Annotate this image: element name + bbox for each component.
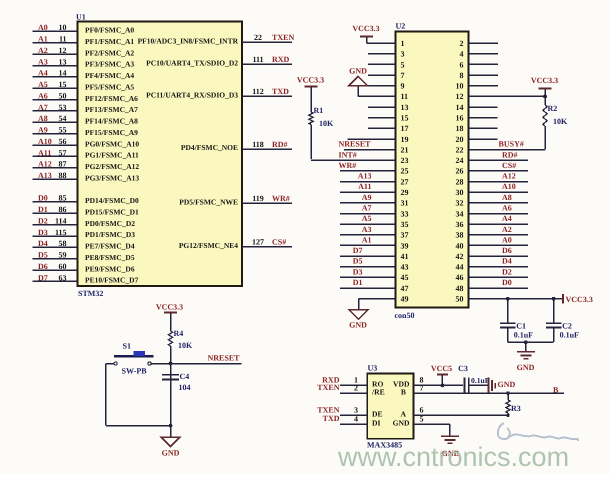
svg-text:20: 20 <box>456 135 464 144</box>
svg-text:PD1/FSMC_D3: PD1/FSMC_D3 <box>85 230 135 239</box>
svg-text:A2: A2 <box>38 46 48 55</box>
svg-text:NRESET: NRESET <box>339 140 372 149</box>
svg-text:D4: D4 <box>502 257 512 266</box>
svg-text:CS#: CS# <box>502 161 516 170</box>
svg-text:D2: D2 <box>38 216 48 225</box>
svg-text:GND: GND <box>517 363 535 372</box>
svg-text:R1: R1 <box>314 106 324 115</box>
svg-text:B: B <box>553 386 559 395</box>
svg-text:GND: GND <box>393 418 410 427</box>
svg-text:57: 57 <box>59 148 67 157</box>
svg-text:A5: A5 <box>362 214 372 223</box>
svg-text:PE8/FSMC_D5: PE8/FSMC_D5 <box>85 253 135 262</box>
svg-text:VCC3.3: VCC3.3 <box>566 295 593 304</box>
svg-text:A3: A3 <box>362 225 372 234</box>
svg-text:A1: A1 <box>38 35 48 44</box>
svg-text:D0: D0 <box>502 278 512 287</box>
svg-text:48: 48 <box>456 284 464 293</box>
svg-text:U1: U1 <box>76 13 86 22</box>
svg-text:31: 31 <box>401 199 409 208</box>
svg-text:B: B <box>401 387 406 396</box>
svg-text:10K: 10K <box>553 117 568 126</box>
svg-text:A13: A13 <box>358 172 372 181</box>
svg-text:PF0/FSMC_A0: PF0/FSMC_A0 <box>85 26 134 35</box>
svg-text:A7: A7 <box>362 204 372 213</box>
svg-text:127: 127 <box>252 238 264 247</box>
svg-text:12: 12 <box>59 46 67 55</box>
svg-text:PF5/FSMC_A5: PF5/FSMC_A5 <box>85 82 134 91</box>
svg-text:SW-PB: SW-PB <box>122 367 148 376</box>
svg-text:24: 24 <box>456 156 464 165</box>
svg-text:58: 58 <box>59 239 67 248</box>
svg-text:2: 2 <box>460 39 464 48</box>
svg-text:11: 11 <box>59 35 67 44</box>
svg-text:30: 30 <box>456 188 464 197</box>
svg-text:A10: A10 <box>38 137 52 146</box>
svg-text:D3: D3 <box>38 228 48 237</box>
svg-text:PF2/FSMC_A2: PF2/FSMC_A2 <box>85 48 134 57</box>
svg-text:PD14/FSMC_D0: PD14/FSMC_D0 <box>85 196 139 205</box>
svg-text:VCC3.3: VCC3.3 <box>297 76 324 85</box>
svg-text:13: 13 <box>59 57 67 66</box>
svg-text:39: 39 <box>401 241 409 250</box>
svg-text:C3: C3 <box>458 364 468 373</box>
svg-text:DI: DI <box>372 418 380 427</box>
svg-text:9: 9 <box>401 82 405 91</box>
svg-text:CS#: CS# <box>272 238 286 247</box>
svg-text:PG2/FSMC_A12: PG2/FSMC_A12 <box>85 162 139 171</box>
svg-text:10: 10 <box>456 82 464 91</box>
svg-text:18: 18 <box>456 124 464 133</box>
svg-text:D5: D5 <box>38 251 48 260</box>
svg-text:TXEN: TXEN <box>272 33 294 42</box>
svg-text:D1: D1 <box>353 278 363 287</box>
svg-text:55: 55 <box>59 126 67 135</box>
svg-text:6: 6 <box>460 60 464 69</box>
svg-text:15: 15 <box>401 114 409 123</box>
svg-text:A: A <box>401 410 407 419</box>
svg-text:D1: D1 <box>38 205 48 214</box>
svg-text:PF13/FSMC_A7: PF13/FSMC_A7 <box>85 105 138 114</box>
svg-text:4: 4 <box>354 414 358 423</box>
svg-text:A7: A7 <box>38 103 48 112</box>
svg-text:21: 21 <box>401 145 409 154</box>
svg-text:GND: GND <box>349 67 367 76</box>
svg-text:www.cntronics.com: www.cntronics.com <box>337 442 569 472</box>
svg-text:53: 53 <box>59 103 67 112</box>
svg-text:PF3/FSMC_A3: PF3/FSMC_A3 <box>85 60 134 69</box>
svg-text:10K: 10K <box>319 119 334 128</box>
svg-text:PD0/FSMC_D2: PD0/FSMC_D2 <box>85 219 135 228</box>
svg-text:3: 3 <box>354 406 358 415</box>
svg-text:R2: R2 <box>548 104 558 113</box>
svg-text:PE7/FSMC_D4: PE7/FSMC_D4 <box>85 242 135 251</box>
svg-text:43: 43 <box>401 263 409 272</box>
svg-text:29: 29 <box>401 188 409 197</box>
svg-text:47: 47 <box>401 284 409 293</box>
svg-text:PE10/FSMC_D7: PE10/FSMC_D7 <box>85 276 139 285</box>
svg-text:VCC3.3: VCC3.3 <box>156 303 183 312</box>
svg-text:C4: C4 <box>180 372 190 381</box>
svg-text:44: 44 <box>456 263 464 272</box>
svg-text:111: 111 <box>252 55 263 64</box>
svg-text:104: 104 <box>179 383 191 392</box>
svg-text:27: 27 <box>401 177 409 186</box>
svg-text:8: 8 <box>460 71 464 80</box>
svg-text:U2: U2 <box>396 22 406 31</box>
svg-text:A3: A3 <box>38 57 48 66</box>
svg-text:PF15/FSMC_A9: PF15/FSMC_A9 <box>85 128 138 137</box>
svg-text:GND: GND <box>349 321 367 330</box>
svg-text:A11: A11 <box>38 148 51 157</box>
svg-text:25: 25 <box>401 167 409 176</box>
svg-text:R3: R3 <box>511 404 521 413</box>
svg-text:A6: A6 <box>502 204 512 213</box>
svg-text:118: 118 <box>252 140 264 149</box>
svg-text:GND: GND <box>162 449 180 458</box>
svg-text:WR#: WR# <box>339 161 357 170</box>
svg-text:41: 41 <box>401 252 409 261</box>
svg-text:A4: A4 <box>38 69 48 78</box>
svg-text:D5: D5 <box>353 257 363 266</box>
svg-text:23: 23 <box>401 156 409 165</box>
svg-text:A12: A12 <box>502 172 516 181</box>
svg-text:17: 17 <box>401 124 409 133</box>
svg-text:33: 33 <box>401 209 409 218</box>
svg-text:PE9/FSMC_D6: PE9/FSMC_D6 <box>85 264 135 273</box>
svg-text:40: 40 <box>456 241 464 250</box>
svg-text:14: 14 <box>456 103 464 112</box>
svg-text:PF1/FSMC_A1: PF1/FSMC_A1 <box>85 37 134 46</box>
svg-text:PD4/FSMC_NOE: PD4/FSMC_NOE <box>181 143 238 152</box>
svg-text:A2: A2 <box>502 225 512 234</box>
svg-text:PF10/ADC3_IN8/FSMC_INTR: PF10/ADC3_IN8/FSMC_INTR <box>138 37 239 46</box>
svg-text:2: 2 <box>354 383 358 392</box>
svg-text:/RE: /RE <box>371 387 385 396</box>
svg-text:4: 4 <box>460 50 464 59</box>
svg-text:WR#: WR# <box>272 194 290 203</box>
svg-text:D7: D7 <box>38 273 48 282</box>
svg-text:0.1uF: 0.1uF <box>514 331 533 340</box>
svg-text:7: 7 <box>401 71 405 80</box>
svg-text:A5: A5 <box>38 80 48 89</box>
svg-text:U3: U3 <box>368 364 378 373</box>
svg-text:A8: A8 <box>502 193 512 202</box>
svg-text:D3: D3 <box>353 267 363 276</box>
svg-text:PD5/FSMC_NWE: PD5/FSMC_NWE <box>179 198 238 207</box>
svg-text:TXEN: TXEN <box>317 383 339 392</box>
svg-text:42: 42 <box>456 252 464 261</box>
svg-text:PG12/FSMC_NE4: PG12/FSMC_NE4 <box>179 241 238 250</box>
svg-text:19: 19 <box>401 135 409 144</box>
svg-text:TXD: TXD <box>272 87 289 96</box>
svg-text:VCC5: VCC5 <box>431 364 452 373</box>
svg-text:D6: D6 <box>502 246 512 255</box>
svg-text:PG3/FSMC_A13: PG3/FSMC_A13 <box>85 173 139 182</box>
svg-text:A10: A10 <box>502 182 516 191</box>
svg-text:6: 6 <box>420 406 424 415</box>
svg-text:D2: D2 <box>502 267 512 276</box>
svg-text:S1: S1 <box>123 342 131 351</box>
svg-text:BUSY#: BUSY# <box>499 140 524 149</box>
svg-text:87: 87 <box>59 160 67 169</box>
svg-text:0.1uF: 0.1uF <box>471 376 490 385</box>
svg-text:RD#: RD# <box>502 150 518 159</box>
svg-text:50: 50 <box>456 294 464 303</box>
svg-text:37: 37 <box>401 231 409 240</box>
svg-text:114: 114 <box>55 216 67 225</box>
svg-text:1: 1 <box>401 39 405 48</box>
svg-text:D0: D0 <box>38 194 48 203</box>
svg-text:32: 32 <box>456 199 464 208</box>
svg-text:C1: C1 <box>516 322 526 331</box>
svg-text:36: 36 <box>456 220 464 229</box>
svg-text:115: 115 <box>55 228 67 237</box>
svg-text:A8: A8 <box>38 114 48 123</box>
svg-text:119: 119 <box>252 194 264 203</box>
svg-text:VCC3.3: VCC3.3 <box>352 24 379 33</box>
svg-text:NRESET: NRESET <box>208 354 241 363</box>
svg-text:STM32: STM32 <box>78 289 103 298</box>
svg-text:RD#: RD# <box>272 140 288 149</box>
svg-text:A11: A11 <box>358 182 371 191</box>
svg-text:22: 22 <box>254 33 262 42</box>
svg-text:PD15/FSMC_D1: PD15/FSMC_D1 <box>85 207 139 216</box>
svg-text:46: 46 <box>456 273 464 282</box>
svg-text:54: 54 <box>59 114 67 123</box>
svg-text:11: 11 <box>401 92 409 101</box>
svg-text:PF12/FSMC_A6: PF12/FSMC_A6 <box>85 94 138 103</box>
svg-text:35: 35 <box>401 220 409 229</box>
svg-text:0.1uF: 0.1uF <box>560 331 579 340</box>
svg-text:GND: GND <box>498 380 516 389</box>
svg-text:45: 45 <box>401 273 409 282</box>
svg-text:VCC3.3: VCC3.3 <box>531 76 558 85</box>
svg-text:63: 63 <box>59 273 67 282</box>
svg-text:D7: D7 <box>353 246 363 255</box>
svg-text:R4: R4 <box>174 329 184 338</box>
svg-text:PF14/FSMC_A8: PF14/FSMC_A8 <box>85 117 138 126</box>
svg-text:A4: A4 <box>502 214 512 223</box>
svg-text:PG0/FSMC_A10: PG0/FSMC_A10 <box>85 139 139 148</box>
svg-text:A1: A1 <box>362 235 372 244</box>
svg-text:C2: C2 <box>562 322 572 331</box>
svg-text:112: 112 <box>252 87 264 96</box>
svg-text:PC11/UART4_RX/SDIO_D3: PC11/UART4_RX/SDIO_D3 <box>146 91 238 100</box>
svg-text:88: 88 <box>59 171 67 180</box>
svg-text:TXEN: TXEN <box>317 405 339 414</box>
svg-text:DE: DE <box>372 410 383 419</box>
svg-text:28: 28 <box>456 177 464 186</box>
svg-text:50: 50 <box>59 91 67 100</box>
svg-text:A12: A12 <box>38 160 52 169</box>
svg-text:14: 14 <box>59 69 67 78</box>
svg-text:10K: 10K <box>178 341 193 350</box>
svg-text:26: 26 <box>456 167 464 176</box>
svg-text:5: 5 <box>401 60 405 69</box>
svg-text:A9: A9 <box>38 126 48 135</box>
svg-text:60: 60 <box>59 262 67 271</box>
svg-text:INT#: INT# <box>339 150 357 159</box>
svg-text:38: 38 <box>456 231 464 240</box>
svg-text:85: 85 <box>59 194 67 203</box>
svg-text:PF4/FSMC_A4: PF4/FSMC_A4 <box>85 71 134 80</box>
svg-text:A6: A6 <box>38 91 48 100</box>
svg-text:86: 86 <box>59 205 67 214</box>
svg-text:16: 16 <box>456 114 464 123</box>
svg-text:10: 10 <box>59 23 67 32</box>
svg-text:D4: D4 <box>38 239 48 248</box>
svg-text:59: 59 <box>59 251 67 260</box>
svg-text:34: 34 <box>456 209 464 218</box>
svg-text:3: 3 <box>401 50 405 59</box>
svg-text:13: 13 <box>401 103 409 112</box>
svg-text:D6: D6 <box>38 262 48 271</box>
svg-text:12: 12 <box>456 92 464 101</box>
svg-text:A0: A0 <box>502 235 512 244</box>
svg-text:56: 56 <box>59 137 67 146</box>
svg-text:A9: A9 <box>362 193 372 202</box>
svg-text:A13: A13 <box>38 171 52 180</box>
svg-text:A0: A0 <box>38 23 48 32</box>
svg-text:PG1/FSMC_A11: PG1/FSMC_A11 <box>85 151 139 160</box>
svg-text:22: 22 <box>456 145 464 154</box>
svg-text:con50: con50 <box>395 311 415 320</box>
svg-text:49: 49 <box>401 294 409 303</box>
svg-text:PC10/UART4_TX/SDIO_D2: PC10/UART4_TX/SDIO_D2 <box>146 58 238 67</box>
svg-text:RXD: RXD <box>272 55 290 64</box>
svg-text:TXD: TXD <box>323 414 340 423</box>
svg-text:15: 15 <box>59 80 67 89</box>
